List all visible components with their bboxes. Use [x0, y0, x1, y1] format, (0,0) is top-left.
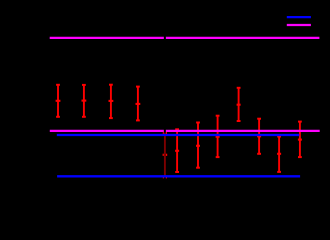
blue fit line C (lower): [57, 175, 300, 177]
errorbar L7: [298, 122, 302, 158]
errorbar U3: [109, 85, 114, 118]
errorbar U2: [82, 85, 87, 117]
black vertical marker line: [164, 28, 166, 183]
magenta fit line A (upper): [50, 37, 320, 39]
blue fit line B2 (middle): [57, 134, 299, 136]
legend key magenta: [287, 24, 311, 26]
errorbar L1 caps and tick (centres overdrawn by black marker line): [163, 133, 168, 177]
errorbar L4: [216, 116, 220, 157]
errorbar U1: [56, 85, 61, 117]
magenta fit line B (middle): [50, 130, 320, 132]
legend key blue: [287, 16, 311, 18]
errorbar L6: [277, 137, 281, 172]
errorbar L3: [196, 123, 200, 168]
errorbar L1 dark red vertical remnant: [164, 133, 166, 177]
errorbar U4: [136, 87, 141, 121]
errorbar L5: [257, 119, 261, 154]
errorbar L2: [175, 129, 179, 172]
errorbar H5: [237, 88, 241, 121]
